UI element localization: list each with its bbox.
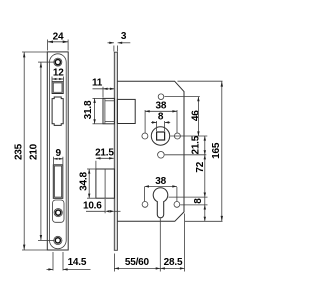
svg-text:11: 11 [92,78,103,89]
faceplate front view inner contour [50,54,67,249]
lower middle hole [158,152,165,159]
svg-text:46: 46 [191,110,202,121]
svg-text:10.6: 10.6 [83,200,102,211]
dim 24 [48,31,69,50]
faceplate front view outer rect [47,52,68,250]
middle screw hole [54,209,62,217]
svg-text:55/60: 55/60 [125,257,150,268]
screw cassette [53,200,65,222]
dim 38 cylinder [144,176,177,201]
svg-text:21.5: 21.5 [95,148,114,159]
dim 21.5 right [190,135,206,155]
ext line cylinder center [169,196,208,198]
main latch slot [52,97,63,125]
dim 46 [191,97,202,136]
dim 72 [195,155,206,222]
svg-text:28.5: 28.5 [164,257,183,268]
ext line case bottom [185,220,223,222]
ext line case top to 165 [178,80,223,82]
dim 12 [52,67,64,81]
dim 38 upper [145,100,177,133]
dim 21.5 left [95,148,114,169]
top screw hole [54,58,62,66]
svg-text:235: 235 [14,143,25,160]
deadbolt slot [53,165,63,199]
dim 14.5 [47,252,91,271]
ext line cylinder side hole [180,204,207,206]
deadbolt edge view [96,169,115,198]
svg-text:38: 38 [155,176,166,187]
dim 9 [54,148,63,164]
aux latch slot [52,82,63,94]
dim 210 [29,62,54,240]
dim 3 [108,31,131,52]
euro cylinder [153,188,168,218]
svg-text:8: 8 [193,198,204,204]
svg-text:165: 165 [211,142,222,159]
svg-text:8: 8 [158,112,164,123]
dim 34.8 [79,169,96,198]
top hole [158,94,164,100]
dim 31.8 [83,98,102,123]
spindle [151,127,169,145]
latch box inside case [117,99,135,123]
dim 11 [92,78,114,98]
svg-text:38: 38 [156,100,167,111]
dim 235 [14,52,47,250]
dim 8 upper [151,112,170,131]
svg-text:21.5: 21.5 [190,135,201,154]
ext line lower hole [165,154,207,156]
svg-text:210: 210 [29,143,40,160]
bottom screw hole [54,236,62,244]
faceplate edge view [114,52,117,250]
svg-text:3: 3 [121,31,127,42]
ext line spindle center [170,135,207,137]
svg-text:24: 24 [53,31,64,42]
latch bolt edge view [103,98,115,123]
svg-text:34.8: 34.8 [79,172,90,191]
spindle side holes [142,133,148,139]
cylinder side holes [142,202,148,208]
dim 10.6 [83,199,121,213]
svg-text:31.8: 31.8 [83,100,94,119]
ext line top hole [165,96,200,98]
dim 8 right [193,193,206,210]
svg-text:12: 12 [53,67,64,78]
svg-text:14.5: 14.5 [68,257,87,268]
lock case outline [117,81,184,221]
svg-text:9: 9 [56,148,62,159]
dim 165 [211,81,223,221]
svg-text:72: 72 [195,161,206,172]
bottom dims 55/60 and 28.5 [114,214,184,272]
